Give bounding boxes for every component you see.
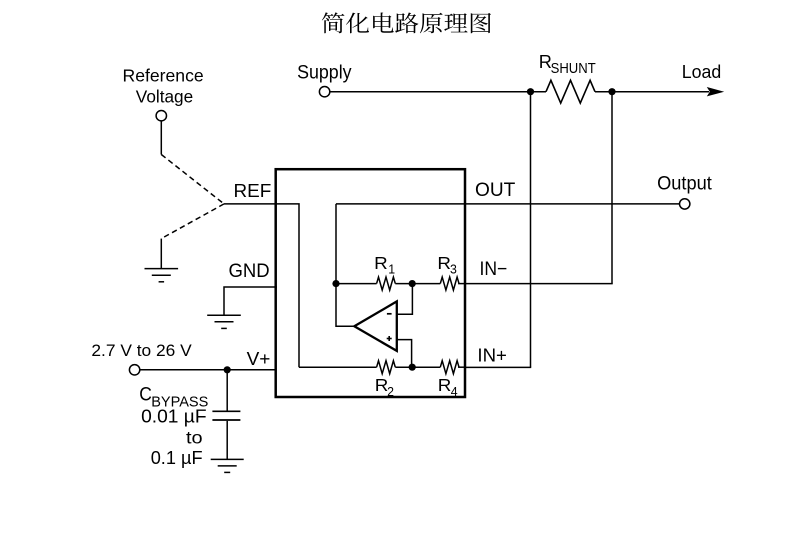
svg-text:3: 3 xyxy=(450,262,457,276)
wire R1 R3 row xyxy=(336,283,377,285)
opamp minus sign xyxy=(387,313,392,315)
wire supply rail xyxy=(330,91,547,93)
wire opamp output to OUT xyxy=(336,204,355,326)
wire OUT to Output xyxy=(465,203,680,205)
svg-text:IN+: IN+ xyxy=(477,345,506,366)
wire V+ xyxy=(140,369,277,371)
wire inverting input xyxy=(397,284,413,315)
wire IN+ horizontal xyxy=(465,366,531,368)
ground reference xyxy=(145,268,179,270)
svg-text:IN−: IN− xyxy=(480,257,508,279)
svg-text:to: to xyxy=(186,428,203,448)
wire REF internal xyxy=(277,204,300,367)
wire IN+ net vertical xyxy=(530,92,532,368)
wire R2 R4 row xyxy=(299,366,377,368)
opamp plus sign xyxy=(387,338,392,340)
op-amp IC box xyxy=(276,169,465,397)
wire to Load xyxy=(595,91,709,93)
svg-text:R: R xyxy=(374,252,388,272)
wire R3 to IN- pin xyxy=(458,283,465,285)
junction R2 R4 node xyxy=(409,364,416,371)
junction shunt left xyxy=(527,88,534,95)
svg-text:Voltage: Voltage xyxy=(136,87,193,107)
svg-text:4: 4 xyxy=(451,385,458,399)
svg-text:0.01 µF: 0.01 µF xyxy=(141,406,207,426)
terminal V+ supply xyxy=(129,365,139,375)
wire REF pin xyxy=(224,203,277,205)
resistor R1 xyxy=(377,277,396,290)
terminal Reference Voltage xyxy=(156,111,166,121)
junction R1 left xyxy=(332,280,339,287)
svg-text:R: R xyxy=(437,252,451,272)
svg-text:Reference: Reference xyxy=(123,65,204,85)
svg-text:REF: REF xyxy=(234,181,272,202)
wire noninverting input xyxy=(397,340,412,368)
capacitor CBYPASS xyxy=(226,370,228,411)
wire OUT internal xyxy=(336,203,465,205)
wire IN- horizontal xyxy=(465,283,613,285)
wire R1 to R3 xyxy=(395,283,440,285)
svg-text:Load: Load xyxy=(682,62,721,82)
wire ref dashed down xyxy=(161,155,224,204)
svg-text:C: C xyxy=(139,383,152,405)
svg-text:0.1 µF: 0.1 µF xyxy=(151,448,203,468)
svg-text:SHUNT: SHUNT xyxy=(551,59,597,76)
svg-text:2.7 V to 26 V: 2.7 V to 26 V xyxy=(91,341,192,360)
ground GND xyxy=(207,314,241,316)
resistor R2 xyxy=(377,361,396,374)
wire GND pin xyxy=(224,287,277,315)
wire IN- net vertical xyxy=(611,92,613,284)
resistor RSHUNT xyxy=(546,80,595,103)
resistor R4 xyxy=(440,361,459,374)
ground bypass xyxy=(211,458,244,460)
load arrow xyxy=(707,87,724,96)
title 简化电路原理图 xyxy=(322,12,491,33)
svg-text:R: R xyxy=(438,375,452,395)
svg-text:Output: Output xyxy=(657,173,712,195)
svg-text:OUT: OUT xyxy=(475,180,516,201)
svg-text:Supply: Supply xyxy=(297,61,352,83)
wire ref dashed to ground xyxy=(161,204,224,239)
svg-text:GND: GND xyxy=(229,261,270,283)
svg-text:2: 2 xyxy=(387,385,394,399)
terminal Output xyxy=(680,199,690,209)
terminal Supply xyxy=(319,87,329,97)
op-amp U1 xyxy=(354,301,397,351)
junction shunt right xyxy=(608,88,615,95)
wire to ref ground xyxy=(160,239,162,269)
wire R2 to R4 xyxy=(395,366,440,368)
junction R1 R3 node xyxy=(409,280,416,287)
resistor R3 xyxy=(440,277,459,290)
wire R4 to IN+ pin xyxy=(458,366,465,368)
svg-text:V+: V+ xyxy=(247,349,271,370)
svg-text:1: 1 xyxy=(388,262,395,276)
junction V+ xyxy=(224,366,231,373)
wire ref stub xyxy=(160,121,162,155)
